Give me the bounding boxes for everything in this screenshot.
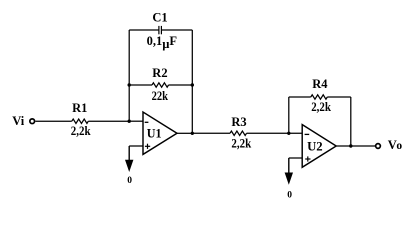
wire C1 left segment	[129, 29, 159, 31]
svg-text:0,1µF: 0,1µF	[147, 34, 178, 51]
ground symbol U1	[125, 160, 133, 172]
svg-text:Vi: Vi	[12, 114, 25, 128]
wire node A up to C1 left	[128, 30, 130, 121]
op-amp U2 minus sign	[305, 133, 310, 135]
wire C1 right segment	[162, 29, 193, 31]
junction dot R2 left	[128, 83, 131, 86]
wire U2 plus down to ground	[288, 158, 290, 173]
svg-text:22k: 22k	[152, 89, 168, 103]
wire R4 left segment	[289, 96, 311, 98]
svg-text:R1: R1	[72, 101, 87, 115]
op-amp U2 triangle	[302, 125, 336, 168]
op-amp U2 plus sign	[305, 158, 310, 160]
wire R2 left segment	[129, 84, 152, 86]
svg-text:0: 0	[127, 176, 132, 186]
wire R1 to node A	[88, 120, 129, 122]
wire node C up to R4 left	[288, 97, 290, 133]
svg-text:R4: R4	[312, 77, 328, 91]
wire R4 right down to output node	[350, 97, 352, 146]
node A junction dot	[128, 120, 131, 123]
wire node D to Vo terminal	[351, 145, 375, 147]
resistor R4	[311, 95, 328, 99]
op-amp U1 plus sign	[145, 145, 150, 147]
svg-text:U2: U2	[307, 139, 323, 153]
svg-text:R3: R3	[231, 115, 246, 129]
wire U2 noninverting input	[289, 157, 302, 159]
wire Vi terminal to R1	[35, 120, 71, 122]
junction dot R2 right	[191, 83, 194, 86]
op-amp U1 triangle	[143, 112, 177, 154]
op-amp U1 minus sign	[145, 121, 149, 123]
svg-text:R2: R2	[152, 66, 167, 80]
svg-text:2,2k: 2,2k	[311, 100, 331, 114]
node D junction dot	[349, 144, 352, 147]
wire right feedback branch down	[191, 30, 193, 133]
svg-text:0: 0	[287, 191, 292, 200]
node B junction dot	[191, 132, 194, 135]
svg-text:2,2k: 2,2k	[231, 136, 251, 150]
wire R4 right segment	[327, 96, 351, 98]
svg-text:Vo: Vo	[388, 138, 403, 152]
wire U1 plus down to ground	[128, 146, 130, 160]
node Vo terminal	[376, 144, 381, 149]
wire R3 to node C	[247, 132, 303, 134]
svg-text:2,2k: 2,2k	[71, 124, 91, 138]
ground symbol U2	[285, 173, 293, 185]
resistor R1	[72, 119, 89, 123]
node C junction dot	[287, 132, 290, 135]
wire node B to R3	[192, 132, 230, 134]
wire U2 output to node D	[336, 145, 351, 147]
resistor R3	[230, 131, 247, 135]
svg-text:U1: U1	[147, 127, 162, 141]
svg-text:C1: C1	[152, 10, 167, 24]
wire node A to U1 inverting input	[129, 120, 143, 122]
wire U1 output to node B	[177, 132, 192, 134]
capacitor C1 plates	[158, 26, 160, 34]
wire R2 right segment	[169, 84, 193, 86]
wire U1 noninverting input	[129, 145, 143, 147]
resistor R2	[152, 83, 169, 87]
node Vi terminal	[30, 119, 35, 124]
